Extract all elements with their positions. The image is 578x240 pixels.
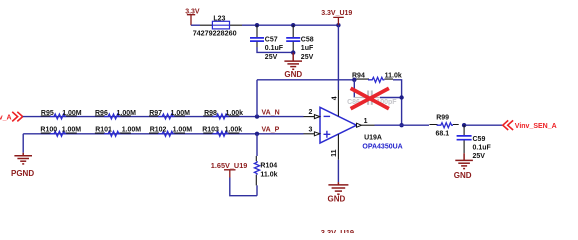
wire R99 to port <box>462 124 502 126</box>
svg-text:R103: R103 <box>202 127 219 134</box>
wire deleted-cap left drop <box>353 80 355 98</box>
wire feedback vertical left (VA_N up) <box>256 80 258 117</box>
wire feedback right + vertical down to output <box>393 80 402 125</box>
svg-text:3: 3 <box>309 126 313 133</box>
svg-text:L23: L23 <box>213 15 225 22</box>
svg-text:Vinv_SEN_A: Vinv_SEN_A <box>515 123 557 130</box>
svg-text:4: 4 <box>331 96 338 100</box>
svg-text:1.00k: 1.00k <box>226 110 244 117</box>
wire op-amp pin11 to GND <box>337 160 339 182</box>
svg-text:11: 11 <box>331 149 338 157</box>
resistor R99 68.1 <box>429 115 458 138</box>
svg-text:11.0k: 11.0k <box>385 73 402 80</box>
svg-text:R96: R96 <box>95 110 108 117</box>
wire feedback top line <box>257 79 356 81</box>
wire deleted-cap right to feedback vertical <box>380 97 402 99</box>
resistor R101 1.00M <box>95 127 141 137</box>
wire row2 (to VA_P) <box>23 133 303 135</box>
resistor R103 1.00k <box>202 127 242 137</box>
resistor R96 1.00M <box>95 110 136 119</box>
svg-text:R104: R104 <box>260 162 277 169</box>
junction top rail at 3.3V_U19 <box>336 23 340 27</box>
power symbol 3.3V_U19 <box>321 10 352 25</box>
svg-text:68.1: 68.1 <box>436 130 450 137</box>
junction top rail at C57 <box>255 23 259 27</box>
svg-text:2: 2 <box>309 109 313 116</box>
svg-text:0.1uF: 0.1uF <box>473 145 492 152</box>
svg-text:1.00M: 1.00M <box>62 110 82 117</box>
wire C57 bottom to C58 bottom <box>257 47 293 52</box>
wire top rail <box>242 24 338 26</box>
svg-text:1: 1 <box>364 118 368 125</box>
resistor R98 1.00k <box>203 110 243 119</box>
svg-text:R102: R102 <box>150 127 167 134</box>
svg-text:R97: R97 <box>149 110 162 117</box>
svg-text:1.00M: 1.00M <box>117 110 137 117</box>
port Vinv_SEN_A <box>503 120 557 130</box>
svg-text:VA_N: VA_N <box>262 109 280 116</box>
pin 2 stub <box>304 116 315 118</box>
pin 11 stub (bottom) <box>337 134 339 160</box>
ground GND output <box>455 153 473 168</box>
svg-text:11.0k: 11.0k <box>260 172 277 179</box>
wire 3.3V to L23 <box>191 24 200 26</box>
svg-text:R99: R99 <box>436 115 449 122</box>
wire 3.3V_U19 down to op-amp pin 4 <box>337 25 339 90</box>
svg-text:GND: GND <box>284 70 302 79</box>
port Vinv_A (left, clipped) <box>0 112 23 122</box>
junction C59 tap <box>462 123 466 127</box>
junction VA_N <box>255 114 259 118</box>
svg-text:R95: R95 <box>41 110 54 117</box>
svg-text:1uF: 1uF <box>301 45 314 52</box>
svg-text:U19A: U19A <box>364 135 382 142</box>
svg-text:1.00k: 1.00k <box>225 127 243 134</box>
op-amp U19A OPA4350UA <box>304 90 403 160</box>
power symbol 1.65V_U19 <box>211 161 248 178</box>
svg-text:R100: R100 <box>40 127 57 134</box>
junction top rail at C58 <box>291 23 295 27</box>
resistor R94 11.0k <box>352 73 402 83</box>
ground GND op-amp <box>328 182 348 194</box>
svg-text:3.3V_U19: 3.3V_U19 <box>321 10 352 17</box>
svg-text:1.00M: 1.00M <box>171 110 191 117</box>
svg-text:C57: C57 <box>265 36 278 43</box>
svg-text:1.00M: 1.00M <box>122 127 142 134</box>
junction C57/C58 bottoms <box>291 50 295 54</box>
svg-text:PGND: PGND <box>11 169 34 178</box>
svg-text:C58: C58 <box>301 36 314 43</box>
svg-text:R101: R101 <box>95 127 112 134</box>
pin 4 stub (top) <box>337 90 339 116</box>
inductor L23 74279228260 <box>193 15 242 37</box>
pin 1 output stub <box>357 123 362 127</box>
junction output <box>399 123 403 127</box>
svg-text:GND: GND <box>328 194 346 203</box>
svg-text:OPA4350UA: OPA4350UA <box>362 144 402 151</box>
wire 1.65V_U19 to R104 <box>230 178 257 196</box>
wire output to R99 <box>375 124 430 126</box>
resistor R104 11.0k (vertical) <box>254 134 277 196</box>
capacitor C58 <box>286 25 314 61</box>
capacitor C86 100pF (deleted, greyed) <box>347 91 397 107</box>
junction VA_P <box>255 132 259 136</box>
svg-text:Vinv_A: Vinv_A <box>0 114 12 121</box>
resistor R95 1.00M <box>41 110 82 119</box>
svg-text:1.65V_U19: 1.65V_U19 <box>211 161 248 170</box>
svg-text:1.00M: 1.00M <box>173 127 193 134</box>
ground PGND <box>11 134 34 178</box>
plus input mark <box>324 131 331 138</box>
svg-text:0.1uF: 0.1uF <box>265 45 284 52</box>
svg-text:25V: 25V <box>301 54 314 61</box>
triangle body <box>320 107 357 143</box>
resistor R102 1.00M <box>149 127 192 137</box>
svg-text:R98: R98 <box>204 110 217 117</box>
red X deletion mark <box>352 89 387 108</box>
svg-text:GND: GND <box>454 171 472 180</box>
wire row1 (to VA_N) <box>23 116 304 118</box>
svg-text:3.3V_U19: 3.3V_U19 <box>321 228 354 233</box>
capacitor C59 <box>457 125 492 160</box>
minus input mark <box>324 115 331 117</box>
power symbol 3.3V <box>185 8 200 25</box>
capacitor C57 <box>250 25 284 61</box>
svg-text:74279228260: 74279228260 <box>193 29 237 38</box>
junction feedback left <box>352 78 356 82</box>
svg-text:VA_P: VA_P <box>262 127 280 134</box>
pin 3 stub <box>304 133 315 135</box>
junction deleted-cap tap <box>399 95 403 99</box>
svg-text:25V: 25V <box>265 54 278 61</box>
resistor R100 1.00M <box>40 127 81 137</box>
svg-text:1.00M: 1.00M <box>62 127 82 134</box>
svg-text:25V: 25V <box>473 153 486 160</box>
ground GND bypass caps <box>284 53 302 70</box>
resistor R97 1.00M <box>149 110 190 119</box>
svg-text:C59: C59 <box>473 136 486 143</box>
